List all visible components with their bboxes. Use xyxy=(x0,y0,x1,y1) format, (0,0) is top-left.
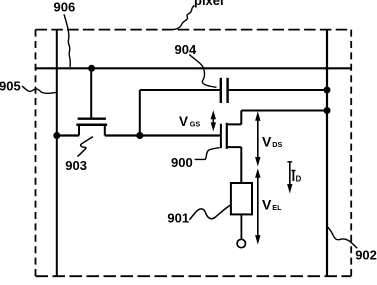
svg-text:906: 906 xyxy=(54,0,76,15)
wire: data line to 903 source xyxy=(57,134,79,136)
svg-text:900: 900 xyxy=(171,155,193,170)
node: capacitor on power line xyxy=(324,87,331,94)
V_EL arrow xyxy=(255,168,260,244)
node: junction of 903 source on data line xyxy=(53,132,60,139)
capacitor 904 xyxy=(221,78,228,103)
node: junction of 903 gate on scan line xyxy=(88,65,95,72)
pointer from 900 to transistor gate xyxy=(195,148,220,160)
wire: OLED to cathode terminal xyxy=(240,214,242,239)
pixel boundary dashed box: right edge xyxy=(350,30,352,277)
wire: power line 902 (right vertical) xyxy=(326,30,328,277)
pointer from 904 to capacitor xyxy=(189,55,216,88)
svg-text:905: 905 xyxy=(0,79,21,94)
V_GS arrow xyxy=(211,110,216,131)
svg-text:904: 904 xyxy=(175,42,197,57)
pointer from 905 to data line xyxy=(22,86,58,93)
svg-text:902: 902 xyxy=(355,248,377,263)
pointer from pixel label to boundary xyxy=(169,6,195,30)
node: storage node junction xyxy=(136,132,143,139)
svg-text:EL: EL xyxy=(272,203,282,212)
pixel boundary dashed box: top edge xyxy=(36,29,352,31)
pointer from 906 to scan line xyxy=(64,14,70,67)
wire: storage node to 900 gate xyxy=(140,134,220,136)
transistor 903 xyxy=(76,119,107,136)
wire: capacitor left lead xyxy=(140,89,220,91)
wire: data line 905 (left vertical) xyxy=(56,30,58,277)
pointer from 901 to OLED xyxy=(189,205,230,220)
svg-text:DS: DS xyxy=(272,140,282,149)
label V_GS xyxy=(179,114,200,129)
label V_EL xyxy=(262,197,282,213)
label V_DS xyxy=(262,134,282,150)
transistor 900 xyxy=(221,111,241,184)
pixel boundary dashed box: left edge xyxy=(35,30,37,277)
svg-text:903: 903 xyxy=(65,158,87,173)
svg-text:V: V xyxy=(262,197,272,213)
svg-text:V: V xyxy=(179,114,188,129)
terminal circle (cathode) xyxy=(237,239,245,247)
wire: capacitor right lead xyxy=(228,89,327,91)
svg-text:GS: GS xyxy=(190,120,201,129)
pointer from 902 to power line xyxy=(327,227,357,249)
svg-text:901: 901 xyxy=(167,211,189,226)
pointer from 903 to transistor xyxy=(78,137,94,157)
node: 900 drain on power line xyxy=(324,107,331,114)
I_D arrow xyxy=(287,162,292,194)
svg-text:pixel: pixel xyxy=(194,0,224,8)
label I_D xyxy=(291,171,301,184)
OLED element 901 xyxy=(231,183,252,214)
pixel boundary dashed box: bottom edge xyxy=(36,275,352,277)
wire: 903 gate riser xyxy=(90,68,92,117)
wire: 900 drain to power line xyxy=(241,110,327,112)
wire: 903 drain to storage node xyxy=(105,134,140,136)
V_DS arrow xyxy=(255,111,260,166)
svg-text:V: V xyxy=(262,134,272,150)
wire: storage node riser to capacitor xyxy=(139,90,141,136)
svg-text:D: D xyxy=(296,175,302,184)
wire: scan line 906 (top horizontal bus) xyxy=(36,67,352,69)
